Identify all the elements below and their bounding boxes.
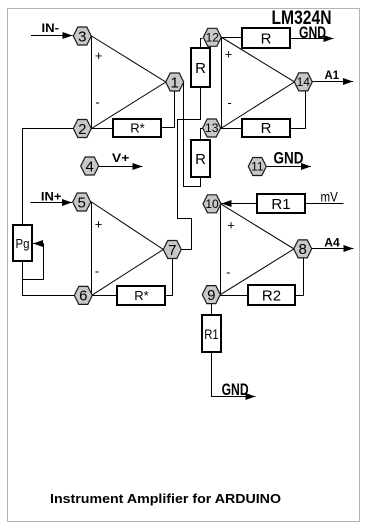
svg-text:mV: mV xyxy=(321,190,338,205)
svg-text:R: R xyxy=(261,120,272,137)
svg-text:Pg: Pg xyxy=(16,236,30,251)
svg-text:11: 11 xyxy=(251,160,264,174)
svg-text:A4: A4 xyxy=(324,236,340,250)
svg-text:GND: GND xyxy=(222,380,249,399)
svg-text:+: + xyxy=(95,217,103,232)
svg-text:7: 7 xyxy=(168,242,176,259)
svg-text:Instrument Amplifier for ARDUI: Instrument Amplifier for ARDUINO xyxy=(50,492,281,506)
svg-text:14: 14 xyxy=(297,75,311,89)
svg-text:-: - xyxy=(227,95,231,110)
svg-text:+: + xyxy=(225,47,233,62)
svg-text:5: 5 xyxy=(78,194,86,211)
svg-text:-: - xyxy=(95,264,99,279)
svg-text:6: 6 xyxy=(79,288,87,305)
svg-text:4: 4 xyxy=(86,158,94,175)
svg-text:R*: R* xyxy=(130,121,144,136)
svg-text:R: R xyxy=(195,60,206,77)
svg-text:R2: R2 xyxy=(262,287,281,304)
svg-text:GND: GND xyxy=(274,149,304,168)
svg-text:A1: A1 xyxy=(325,68,340,82)
svg-text:V+: V+ xyxy=(112,151,129,165)
svg-text:+: + xyxy=(227,218,235,233)
svg-text:10: 10 xyxy=(205,197,219,211)
svg-text:13: 13 xyxy=(205,121,219,135)
svg-text:12: 12 xyxy=(206,31,220,45)
svg-text:-: - xyxy=(226,264,230,279)
svg-text:R: R xyxy=(195,151,206,168)
svg-text:9: 9 xyxy=(207,287,215,304)
svg-text:R: R xyxy=(261,30,272,47)
svg-text:+: + xyxy=(95,48,103,63)
svg-text:LM324N: LM324N xyxy=(272,7,332,29)
svg-text:2: 2 xyxy=(78,121,86,138)
svg-text:1: 1 xyxy=(171,74,179,91)
svg-text:R*: R* xyxy=(134,288,148,303)
svg-text:IN-: IN- xyxy=(42,21,60,35)
svg-text:R1: R1 xyxy=(204,326,219,342)
svg-text:8: 8 xyxy=(299,241,307,258)
svg-text:-: - xyxy=(95,95,99,110)
svg-text:R1: R1 xyxy=(271,196,290,213)
svg-text:3: 3 xyxy=(78,28,86,45)
svg-text:IN+: IN+ xyxy=(41,190,62,204)
